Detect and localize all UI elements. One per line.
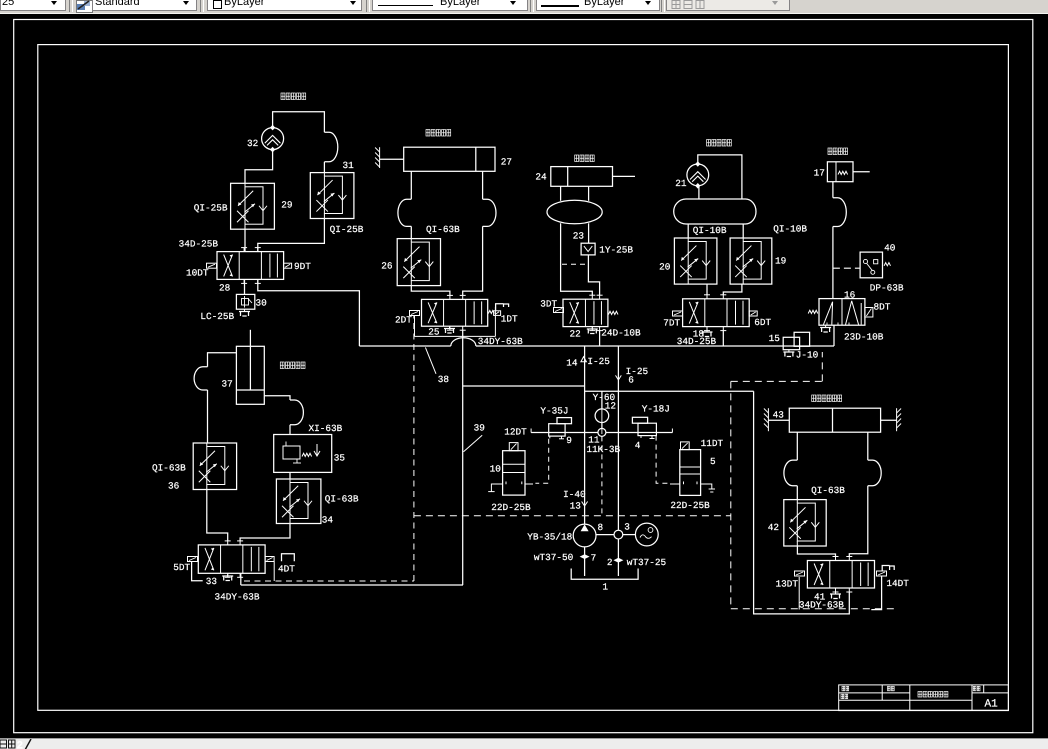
junction circle 3	[614, 522, 630, 539]
svg-text:3DT: 3DT	[540, 299, 557, 310]
svg-text:34D-25B: 34D-25B	[179, 239, 219, 250]
labels 11 11K-3B	[586, 435, 620, 455]
flow arrow 13	[582, 502, 588, 507]
hose lobe 43L	[784, 460, 797, 486]
pilot dashed 4DT line	[244, 316, 414, 581]
wire cyl43 right down	[867, 432, 869, 460]
svg-text:6DT: 6DT	[754, 317, 771, 328]
wire QI19 to valve18	[723, 284, 742, 295]
wire right to valve25	[463, 226, 483, 295]
label 1	[602, 582, 608, 593]
svg-text:37: 37	[222, 379, 233, 390]
relief valve 22D-25B 5	[670, 442, 715, 496]
svg-text:13DT: 13DT	[776, 579, 799, 590]
label 40	[884, 243, 896, 254]
title block column lines	[882, 685, 984, 711]
svg-text:34: 34	[322, 515, 334, 526]
solenoid 13DT	[776, 571, 805, 590]
label 23	[573, 231, 585, 242]
wire QI20 to valve18	[706, 284, 708, 295]
wire motor21 top	[698, 155, 742, 199]
svg-text:1DT: 1DT	[501, 314, 518, 325]
bracket mark 14DT	[882, 566, 894, 572]
tank under valve33	[222, 573, 233, 580]
leader 38	[425, 347, 449, 385]
svg-text:XI-63B: XI-63B	[309, 423, 343, 434]
svg-text:24: 24	[535, 172, 547, 183]
svg-text:13: 13	[570, 501, 582, 512]
valve 18 34D-25B	[683, 295, 750, 331]
svg-text:1Y-25B: 1Y-25B	[599, 245, 633, 256]
bracket 1DT	[496, 304, 509, 311]
pressure bus	[359, 345, 834, 347]
svg-text:25: 25	[428, 327, 440, 338]
wire junction to motor	[623, 534, 636, 536]
throttle valve QI-10B 19	[730, 238, 772, 284]
svg-text:4: 4	[635, 440, 641, 451]
svg-text:YB-35/18: YB-35/18	[527, 532, 572, 543]
pilot dash Y-35J to valve10	[535, 439, 548, 484]
svg-text:30: 30	[256, 298, 268, 309]
svg-text:20: 20	[659, 262, 671, 273]
throttle valve QI-63B 34	[276, 479, 321, 524]
label 43	[773, 410, 785, 421]
svg-text:22D-25B: 22D-25B	[491, 502, 531, 513]
svg-text:42: 42	[768, 522, 779, 533]
wire to XI35	[289, 425, 291, 435]
pilot dash Y-18J to valve5	[656, 436, 670, 484]
svg-text:24D-10B: 24D-10B	[601, 328, 641, 339]
svg-text:34DY-63B: 34DY-63B	[215, 592, 260, 603]
link line y386	[463, 385, 585, 387]
solenoid 2DT	[395, 311, 420, 326]
drain 14DT	[871, 576, 881, 610]
label QI-63B 26	[426, 224, 460, 235]
label 26	[381, 261, 393, 272]
dashed boundary pump station	[414, 515, 731, 517]
svg-text:14: 14	[566, 358, 578, 369]
label 27	[501, 157, 512, 168]
cylinder 24	[551, 167, 635, 187]
svg-text:QI-25B: QI-25B	[330, 224, 364, 235]
label 20	[659, 262, 671, 273]
wire QI36 to valve33	[207, 490, 228, 542]
sequence valve J-10 15	[783, 332, 809, 356]
valve 16 23D-10B	[819, 299, 865, 326]
label 41	[814, 592, 826, 603]
label 37	[222, 379, 233, 390]
label 42	[768, 522, 779, 533]
svg-text:34DY-63B: 34DY-63B	[478, 336, 523, 347]
wire QI26 to valve25	[411, 286, 450, 296]
pneumatic motor 21	[687, 161, 709, 188]
drain 13DT	[798, 577, 800, 610]
wire QI31 to valve28	[258, 219, 325, 252]
wire QI29 to valve28	[244, 229, 246, 251]
wire 23 right to check	[588, 223, 590, 243]
svg-text:3: 3	[624, 522, 630, 533]
pilot valve Y-18J 4	[632, 417, 672, 438]
svg-text:17: 17	[814, 168, 825, 179]
wire into QI42	[796, 486, 798, 500]
svg-text:QI-63B: QI-63B	[811, 485, 845, 496]
spring valve16	[808, 310, 818, 313]
labels pump8	[527, 522, 603, 543]
pilot valve Y-35J 9	[531, 418, 571, 439]
svg-text:QI-10B: QI-10B	[773, 224, 807, 235]
solenoid 1DT	[488, 311, 518, 325]
label 24	[535, 172, 547, 183]
feed line y391	[585, 390, 754, 392]
svg-text:8DT: 8DT	[874, 302, 891, 313]
svg-text:LC-25B: LC-25B	[200, 311, 234, 322]
svg-text:J-10: J-10	[796, 350, 819, 361]
label 1Y-25B	[599, 245, 633, 256]
pilot check valve LC-25B 30	[236, 294, 254, 309]
svg-text:22: 22	[570, 329, 581, 340]
suction line pump	[584, 547, 586, 576]
svg-text:39: 39	[474, 423, 485, 434]
label 19	[775, 256, 786, 267]
wire valve28 to LC30	[244, 279, 246, 294]
svg-text:2: 2	[607, 557, 613, 568]
group5 title text	[828, 148, 848, 155]
svg-text:2DT: 2DT	[395, 315, 412, 326]
pilot check 1Y-25B	[581, 243, 595, 255]
wire pump to junction	[596, 534, 614, 536]
wire pump32 top to node	[273, 112, 325, 133]
svg-text:Y-35J: Y-35J	[540, 406, 568, 417]
label 33	[206, 576, 218, 587]
valve 33 34DY-63B	[198, 541, 265, 577]
low bus left	[241, 584, 463, 586]
group2 title text	[426, 130, 451, 137]
svg-text:31: 31	[343, 160, 355, 171]
labels valve5	[670, 438, 723, 511]
anchor right 43	[897, 408, 902, 431]
svg-text:32: 32	[247, 138, 258, 149]
svg-text:12DT: 12DT	[504, 427, 527, 438]
flow arrow 14	[581, 357, 587, 362]
svg-text:11DT: 11DT	[701, 438, 724, 449]
wire valve22 P to bus	[599, 331, 601, 346]
svg-text:wT37-50: wT37-50	[534, 552, 574, 563]
svg-text:28: 28	[219, 283, 231, 294]
svg-text:29: 29	[281, 200, 292, 211]
svg-text:34D-25B: 34D-25B	[677, 336, 717, 347]
label 17	[814, 168, 825, 179]
svg-text:QI-63B: QI-63B	[426, 224, 460, 235]
solenoid 5DT	[173, 557, 197, 574]
wire into QI26	[410, 226, 412, 238]
svg-text:35: 35	[334, 453, 346, 464]
title block small texts	[841, 686, 980, 698]
drain line valve25	[415, 307, 496, 336]
svg-text:26: 26	[381, 261, 393, 272]
svg-text:5DT: 5DT	[173, 562, 190, 573]
tank under valve18	[702, 331, 713, 337]
feed line right drop	[754, 391, 850, 614]
damper capsule 21	[674, 199, 756, 224]
tank under valve41	[830, 592, 841, 599]
label 18	[693, 329, 705, 340]
check diamond 7	[580, 554, 590, 559]
label 25	[428, 327, 440, 338]
hose lobe 36	[194, 367, 207, 390]
wire motor21 bottom	[698, 186, 700, 199]
svg-text:4DT: 4DT	[278, 564, 295, 575]
title block row line	[839, 692, 1009, 694]
svg-text:10DT: 10DT	[186, 268, 209, 279]
branch to DP40	[833, 267, 860, 269]
solenoid 14DT	[877, 571, 910, 589]
solenoid 4DT	[265, 557, 295, 575]
throttle valve QI-63B 42	[784, 500, 826, 546]
check diamond 2	[613, 558, 623, 563]
hydraulic pump YB-35/18 8	[573, 524, 596, 547]
pilot dash to check	[562, 263, 585, 265]
svg-text:21: 21	[675, 178, 687, 189]
svg-text:27: 27	[501, 157, 512, 168]
throttle valve QI-63B 36	[193, 443, 236, 490]
wire 17 down	[832, 182, 834, 198]
labels I-25 6	[626, 366, 649, 386]
label QI-25B left	[194, 203, 228, 214]
label 22	[570, 329, 581, 340]
spring valve22	[608, 311, 618, 314]
wire valve25 down long	[462, 330, 464, 585]
solenoid 8DT	[865, 302, 891, 318]
gauge branch	[601, 391, 603, 409]
svg-text:Y-18J: Y-18J	[642, 404, 670, 415]
wire QI42 to valve41	[797, 546, 835, 557]
solenoid 9DT	[284, 261, 312, 272]
wire to valve 31	[323, 162, 325, 173]
wire cyl37 left port	[208, 353, 237, 367]
label 34D-25B	[179, 239, 219, 250]
svg-text:7: 7	[591, 553, 597, 564]
label 28	[219, 283, 231, 294]
svg-text:22D-25B: 22D-25B	[670, 500, 710, 511]
leader 39	[464, 423, 485, 452]
labels wT37-50 7	[534, 552, 596, 564]
bus crossover arc	[451, 338, 476, 346]
label 34D-25B g4	[677, 336, 717, 347]
cylinder 27	[380, 147, 495, 171]
label J-10	[796, 350, 819, 361]
wire 17 to valve16	[832, 227, 834, 299]
wire valve28 B to bus	[258, 279, 360, 346]
wire cyl27 left down	[410, 171, 412, 199]
labels 14 I-25	[566, 356, 610, 369]
label 15	[769, 333, 781, 344]
svg-text:33: 33	[206, 576, 218, 587]
labels Y-18J 4	[635, 404, 670, 452]
svg-text:9DT: 9DT	[294, 261, 311, 272]
cylinder 37	[236, 330, 264, 405]
reducing valve XI-63B 35	[274, 435, 332, 473]
tank under valve16	[820, 325, 831, 332]
labels valve10	[490, 427, 531, 514]
wire 23 left branch	[561, 223, 593, 295]
anchor left 43	[764, 408, 769, 431]
hose lobe 35	[290, 400, 303, 425]
labels 2 wT37-25	[607, 557, 667, 568]
label 34DY-63B bottom left	[215, 592, 260, 603]
svg-text:14DT: 14DT	[886, 578, 909, 589]
svg-text:23D-10B: 23D-10B	[844, 332, 884, 343]
wire QI34 to valve33	[240, 524, 290, 542]
tank under LC-25B	[239, 309, 250, 316]
hose lobe 43R	[868, 460, 881, 486]
group1 title text	[281, 93, 306, 100]
throttle valve QI-63B 26	[397, 239, 440, 286]
svg-text:38: 38	[438, 374, 450, 385]
wire valve18 P to bus	[722, 331, 724, 346]
hose lobe 27L	[398, 199, 411, 226]
label QI-63B 42	[811, 485, 845, 496]
dashed boundary right group	[731, 352, 894, 609]
svg-text:43: 43	[773, 410, 785, 421]
valve 25 34DY-63B	[422, 295, 488, 330]
solenoid 5DT drain	[192, 562, 203, 581]
throttle valve QI-10B 20	[674, 238, 717, 284]
relief valve 22D-25B 10	[488, 443, 533, 496]
main line I-25 left	[584, 346, 586, 524]
wires cyl24 to damper	[561, 186, 589, 201]
flow arrow 6	[616, 375, 622, 380]
wire capsule to QI20	[687, 224, 689, 238]
gauge stub	[601, 423, 603, 429]
label QI-10B left	[693, 225, 727, 236]
svg-text:5: 5	[710, 456, 716, 467]
bracket mark 4DT	[282, 554, 295, 562]
solenoid 6DT	[749, 311, 771, 328]
hose lobe on line 31	[324, 132, 337, 162]
label LC-25B	[200, 311, 234, 322]
svg-text:1: 1	[602, 582, 608, 593]
svg-text:QI-63B: QI-63B	[152, 463, 186, 474]
svg-text:23: 23	[573, 231, 585, 242]
group3 title text	[575, 155, 595, 162]
wire valve33 to low bus	[240, 573, 242, 585]
pressure gauge Y-60 12	[595, 409, 609, 423]
title block row line 2	[839, 699, 972, 701]
label QI-63B 34	[322, 494, 359, 526]
svg-text:6: 6	[628, 375, 634, 386]
label 30	[256, 298, 268, 309]
valve 41 34DY-63B	[807, 557, 874, 593]
wire check to valve22	[588, 255, 599, 295]
svg-text:wT37-25: wT37-25	[627, 557, 667, 568]
tank box 1	[571, 569, 638, 580]
svg-text:19: 19	[775, 256, 786, 267]
solenoid 7DT	[663, 311, 682, 329]
wire cyl37 right port	[264, 396, 290, 400]
svg-text:QI-63B: QI-63B	[325, 494, 359, 505]
label XI-63B	[309, 423, 346, 464]
label 16	[844, 290, 856, 301]
pilot dash gauge down	[601, 436, 603, 515]
title block sheet size A1	[985, 699, 999, 711]
valve 28 34D-25B	[217, 248, 284, 284]
wire valve16 to bus	[833, 325, 835, 346]
svg-text:36: 36	[168, 481, 180, 492]
svg-text:I-25: I-25	[587, 356, 610, 367]
wire pump32 bottom to QI29	[245, 150, 273, 184]
svg-text:10: 10	[490, 464, 502, 475]
throttle valve QI-25B 31	[310, 173, 354, 219]
svg-text:I-40: I-40	[563, 489, 586, 500]
cylinder 43	[768, 408, 896, 432]
svg-text:DP-63B: DP-63B	[870, 283, 904, 294]
svg-text:40: 40	[884, 243, 896, 254]
wire capsule to QI19	[742, 224, 744, 238]
labels Y-60 12	[593, 392, 616, 412]
svg-text:34DY-63B: 34DY-63B	[799, 600, 844, 611]
label 34DY-63B right	[799, 600, 844, 611]
wire XI35 to QI34	[289, 472, 291, 479]
svg-text:8: 8	[598, 522, 604, 533]
label 32	[247, 138, 258, 149]
gauge switch 11K-3B 11	[598, 428, 606, 436]
svg-text:11K-3B: 11K-3B	[586, 444, 620, 455]
title block outline	[839, 685, 1009, 711]
label 24D-10B	[601, 328, 641, 339]
wire right to valve41	[849, 486, 868, 557]
label 21	[675, 178, 687, 189]
label QI-63B 36	[152, 463, 186, 492]
svg-text:QI-25B: QI-25B	[194, 203, 228, 214]
svg-text:QI-10B: QI-10B	[693, 225, 727, 236]
wire to QI36	[207, 390, 209, 443]
svg-text:15: 15	[769, 333, 781, 344]
svg-text:12: 12	[605, 401, 616, 412]
svg-text:2: 2	[17, 741, 24, 749]
pilot line y432	[531, 432, 672, 434]
solenoid 10DT	[186, 263, 217, 278]
damper ellipse 23	[547, 200, 602, 224]
group6 title text	[812, 395, 842, 402]
hose lobe 27R	[483, 199, 496, 226]
hose lobe 17	[833, 198, 846, 227]
group7 title text	[280, 362, 305, 369]
pneumatic motor 32	[262, 125, 284, 153]
electric motor	[635, 523, 658, 546]
tank under valve22	[587, 327, 598, 334]
label 31	[343, 160, 355, 171]
labels Y-35J 9	[540, 406, 571, 447]
label QI-10B right	[773, 224, 807, 235]
label 34DY-63B top	[478, 336, 523, 347]
tank under valve25	[444, 326, 455, 333]
label QI-25B right	[330, 224, 364, 235]
suction line motor side	[617, 539, 619, 576]
solenoid 3DT	[540, 299, 563, 313]
svg-text:A1: A1	[985, 699, 999, 711]
group4 title text	[707, 140, 732, 147]
main line I-25 right	[617, 346, 619, 530]
valve 22 24D-10B	[563, 295, 608, 330]
label 23D-10B	[844, 332, 884, 343]
labels I-40 13	[563, 489, 586, 512]
label DP-63B	[870, 283, 904, 294]
wire cyl27 right down	[482, 171, 484, 199]
svg-text:9: 9	[566, 435, 572, 446]
label 29	[281, 200, 292, 211]
pressure switch DP-63B 40	[860, 252, 890, 278]
air unit 17	[827, 162, 869, 182]
